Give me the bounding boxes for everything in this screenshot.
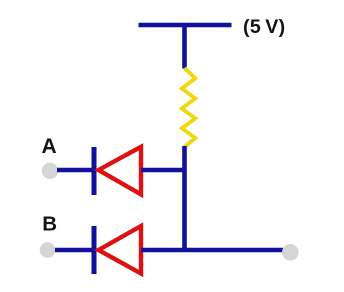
wire: resistor to output bus (vertical) xyxy=(182,146,187,252)
diode B cathode bar xyxy=(92,226,97,274)
svg-text:(5 V): (5 V) xyxy=(243,16,285,38)
diode B triangle xyxy=(99,226,142,274)
label A xyxy=(42,135,57,158)
wire: node A to diode A cathode xyxy=(57,168,95,173)
power rail (5 V) top bar xyxy=(139,23,232,28)
node A terminal xyxy=(42,163,58,179)
diode A cathode bar xyxy=(92,147,97,195)
wire: diode A anode to output bus xyxy=(141,168,186,173)
svg-text:B: B xyxy=(42,213,57,236)
diode A triangle xyxy=(99,147,142,195)
node B terminal xyxy=(40,242,56,258)
wire: rail down to resistor xyxy=(182,24,187,69)
wire: diode B anode to output terminal xyxy=(141,248,283,253)
output terminal xyxy=(282,244,299,261)
label B xyxy=(42,213,57,236)
resistor (pull-up) xyxy=(182,68,196,147)
wire: node B to diode B cathode xyxy=(55,248,95,253)
label (5 V) xyxy=(243,16,285,38)
svg-text:A: A xyxy=(42,135,57,158)
